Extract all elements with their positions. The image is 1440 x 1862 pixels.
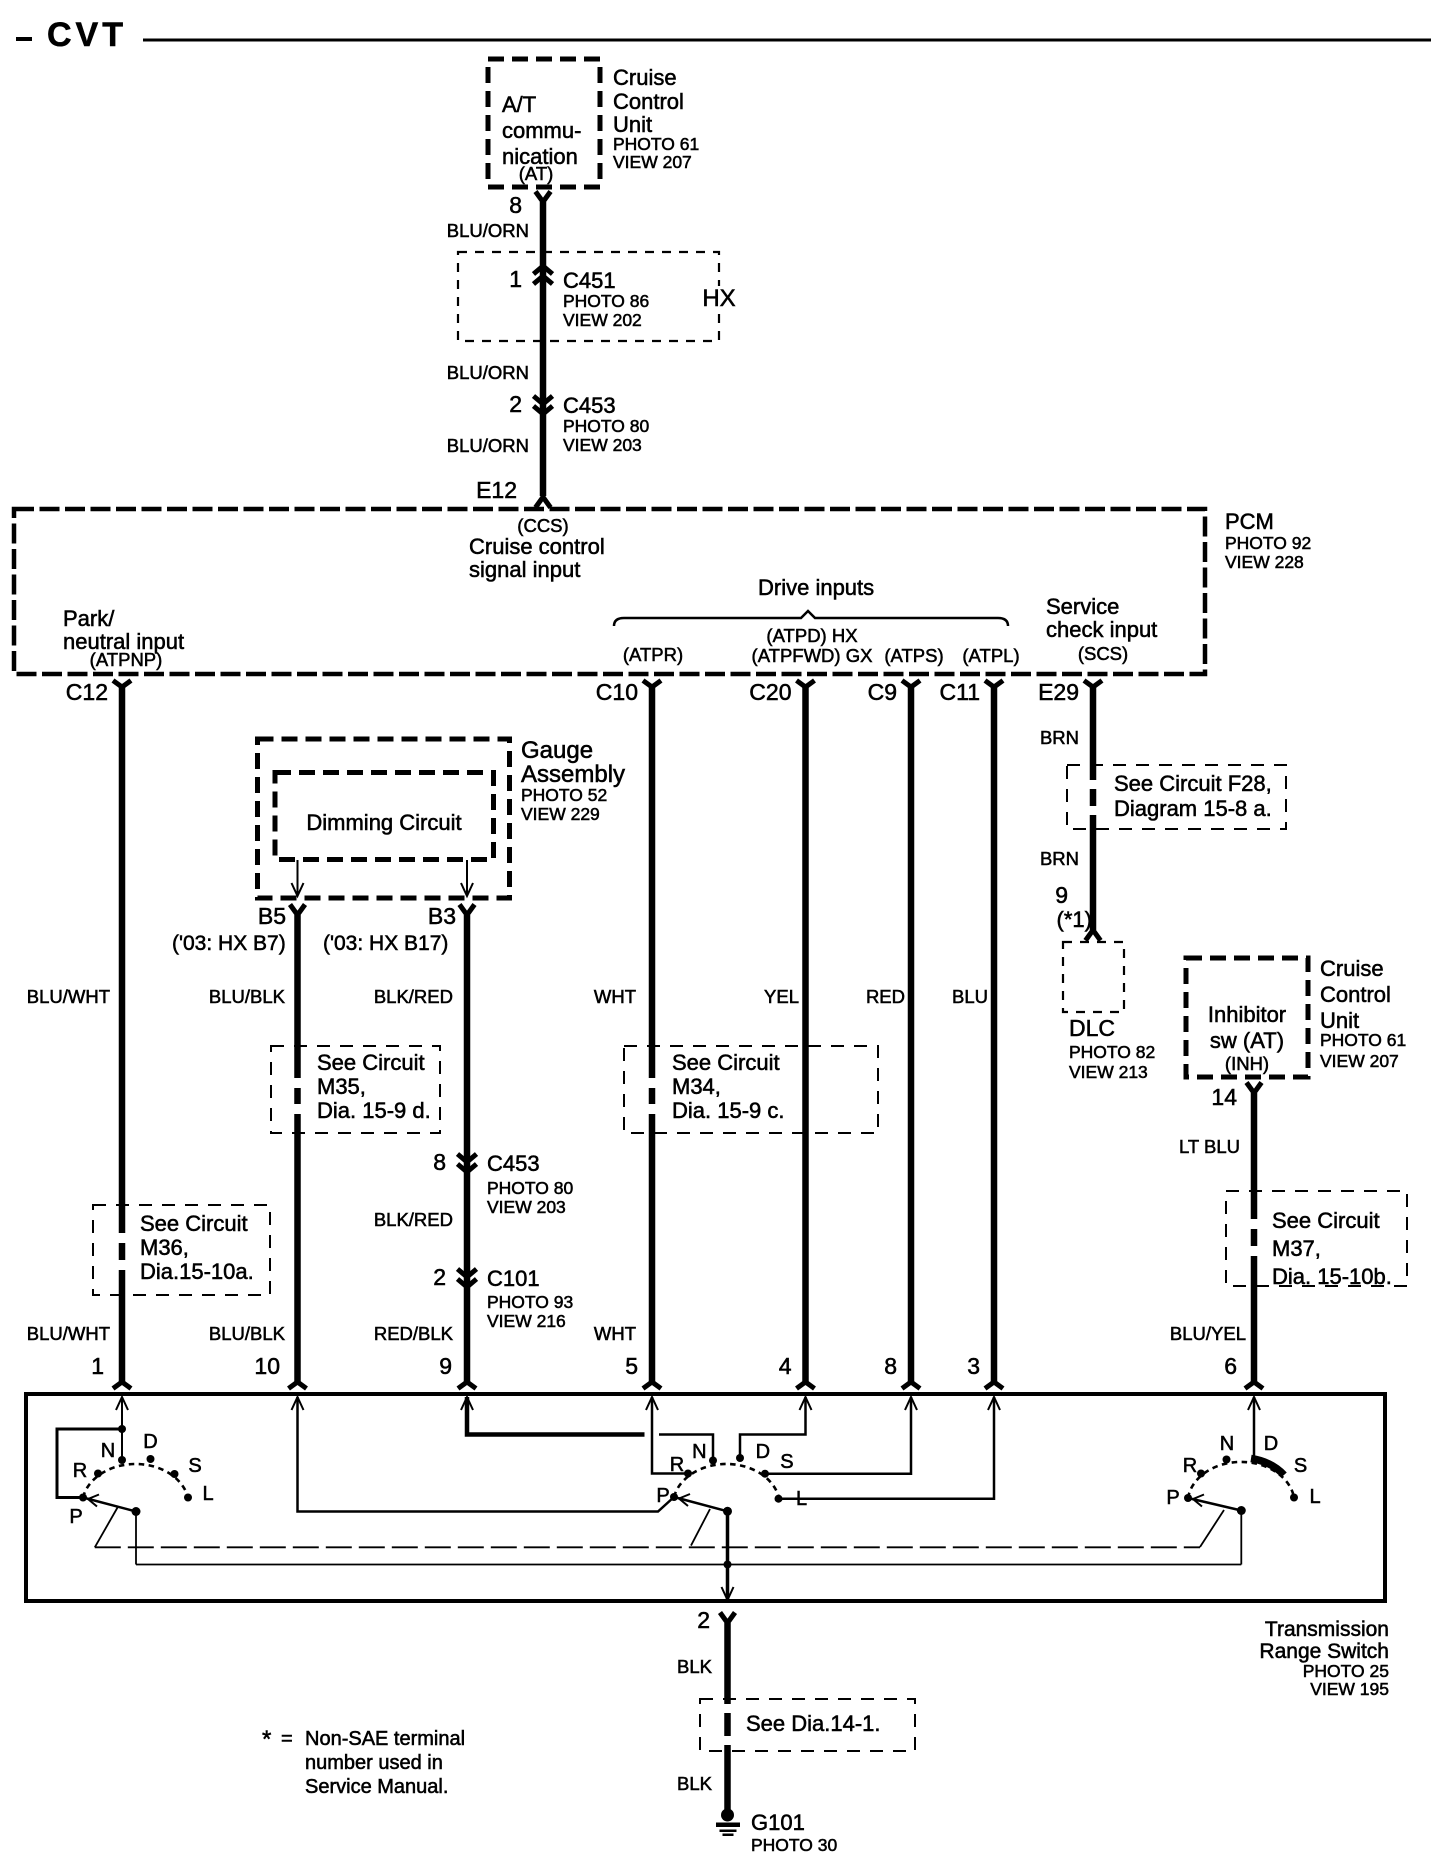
label C453 lower	[487, 1151, 574, 1217]
svg-text:BLK/RED: BLK/RED	[374, 1209, 453, 1230]
switch SW3 contact arc	[1188, 1462, 1294, 1498]
gauge assembly box	[258, 739, 510, 898]
svg-text:PCM: PCM	[1225, 509, 1274, 534]
svg-text:BLU/ORN: BLU/ORN	[447, 435, 529, 456]
pin 4 of range switch	[779, 1353, 815, 1389]
svg-text:PHOTO 25: PHOTO 25	[1303, 1661, 1389, 1681]
wire bracket pin 1 to P contact	[57, 1429, 122, 1498]
svg-text:WHT: WHT	[594, 986, 636, 1007]
svg-text:E29: E29	[1038, 679, 1079, 705]
svg-text:BLU/YEL: BLU/YEL	[1170, 1323, 1246, 1344]
ground G101	[716, 1809, 740, 1837]
linkage slant SW1	[95, 1507, 118, 1547]
inhibitor switch box	[1186, 958, 1308, 1077]
pin 1 of range switch	[91, 1353, 131, 1389]
svg-text:(ATPNP): (ATPNP)	[90, 649, 163, 670]
svg-text:Service: Service	[1046, 594, 1119, 619]
label BLK upper	[677, 1656, 713, 1677]
svg-text:Cruise control: Cruise control	[469, 534, 605, 559]
label ('03: HX B7)	[172, 932, 286, 955]
wire dimming circuit to B3	[461, 860, 473, 896]
wire pin 9 to N contact	[461, 1397, 713, 1461]
label C101	[487, 1266, 573, 1331]
svg-text:C11: C11	[940, 679, 981, 705]
svg-text:Park/: Park/	[63, 606, 115, 631]
svg-text:6: 6	[1224, 1353, 1237, 1379]
svg-text:Inhibitor: Inhibitor	[1208, 1002, 1286, 1027]
svg-text:See Dia.14-1.: See Dia.14-1.	[746, 1711, 881, 1736]
wire BLU/ORN from U1 pin 8 to PCM E12	[540, 202, 547, 496]
connector C101 pin 2	[433, 1264, 476, 1290]
svg-text:BLU/ORN: BLU/ORN	[447, 362, 529, 383]
svg-text:BLU/WHT: BLU/WHT	[27, 1323, 110, 1344]
pin 2 of range switch	[697, 1607, 735, 1633]
svg-text:C453: C453	[563, 393, 616, 418]
svg-text:Control: Control	[1320, 982, 1391, 1007]
PCM U2 box	[14, 509, 1205, 674]
label (ATPS)	[884, 645, 943, 666]
label BLU/WHT upper	[27, 986, 110, 1007]
switch SW2 contacts	[670, 1454, 783, 1503]
switch SW2 wiper	[674, 1494, 732, 1516]
switch SW3 position labels	[1166, 1433, 1320, 1509]
svg-text:8: 8	[884, 1353, 897, 1379]
svg-text:Transmission: Transmission	[1265, 1618, 1389, 1641]
svg-text:Dimming Circuit: Dimming Circuit	[306, 810, 461, 835]
svg-text:L: L	[202, 1483, 213, 1505]
svg-text:=: =	[281, 1728, 293, 1750]
svg-text:M35,: M35,	[317, 1074, 366, 1099]
pin 9 of range switch	[439, 1353, 476, 1389]
svg-text:(CCS): (CCS)	[517, 515, 568, 536]
wire YEL from PCM C20 to range switch pin 4	[802, 687, 809, 1382]
svg-text:PHOTO 86: PHOTO 86	[563, 291, 649, 311]
svg-text:Non-SAE terminal: Non-SAE terminal	[305, 1728, 465, 1750]
svg-text:L: L	[1309, 1486, 1320, 1508]
wire SW1 wiper to common	[135, 1512, 137, 1565]
label C451	[563, 268, 649, 330]
label BLU/ORN 3	[447, 435, 529, 456]
node DLC fork	[1086, 930, 1101, 941]
switch SW1 contacts	[79, 1455, 192, 1502]
see circuit M37 box	[1226, 1191, 1407, 1289]
note non-SAE terminal	[262, 1726, 465, 1798]
see dia 14-1 box	[700, 1699, 915, 1751]
node junction pin 1	[118, 1425, 126, 1433]
DLC box	[1063, 942, 1124, 1012]
svg-text:G101: G101	[751, 1810, 805, 1835]
node CVT title	[47, 16, 127, 54]
label (ATPD) HX / (ATPFWD) GX	[752, 625, 873, 666]
wire - title dash	[16, 37, 32, 41]
dimming circuit box	[275, 773, 494, 860]
svg-text:Diagram 15-8 a.: Diagram 15-8 a.	[1114, 796, 1272, 821]
label G101	[751, 1810, 838, 1855]
svg-text:A/T: A/T	[502, 92, 536, 117]
pin C11 of PCM	[940, 679, 1004, 705]
pin B5 of gauge assembly	[258, 903, 305, 929]
svg-text:VIEW 229: VIEW 229	[521, 804, 600, 824]
svg-text:C9: C9	[868, 679, 897, 705]
label BLU/ORN 2	[447, 362, 529, 383]
label WHT upper	[594, 986, 636, 1007]
label CCS cruise control signal input	[469, 515, 605, 582]
svg-text:P: P	[1166, 1487, 1179, 1509]
label BLU/BLK upper	[209, 986, 286, 1007]
svg-text:M34,: M34,	[672, 1074, 721, 1099]
svg-text:PHOTO 30: PHOTO 30	[751, 1835, 838, 1855]
switch SW1 wiper	[83, 1495, 141, 1517]
switch SW1 contact arc	[83, 1464, 188, 1498]
svg-text:BRN: BRN	[1040, 727, 1079, 748]
svg-text:8: 8	[433, 1149, 446, 1175]
svg-text:check input: check input	[1046, 617, 1157, 642]
wire pin 1 entry	[116, 1397, 128, 1429]
svg-text:8: 8	[509, 192, 522, 218]
switch SW3 contacts	[1184, 1456, 1298, 1503]
svg-text:Dia.15-10a.: Dia.15-10a.	[140, 1259, 254, 1284]
wire SW2 wiper to pin 2	[722, 1511, 734, 1600]
svg-text:PHOTO 52: PHOTO 52	[521, 785, 607, 805]
svg-text:C451: C451	[563, 268, 616, 293]
wire RED from PCM C9 to range switch pin 8	[908, 687, 915, 1382]
svg-text:BLU/BLK: BLU/BLK	[209, 986, 286, 1007]
label drive inputs	[758, 575, 874, 600]
svg-text:VIEW 203: VIEW 203	[563, 435, 642, 455]
svg-text:10: 10	[254, 1353, 280, 1379]
svg-text:PHOTO 80: PHOTO 80	[487, 1178, 574, 1198]
pin C10 of PCM	[596, 679, 661, 705]
svg-text:VIEW 195: VIEW 195	[1310, 1679, 1389, 1699]
pin 9 of DLC (*1)	[1055, 882, 1092, 932]
transmission range switch box	[26, 1394, 1385, 1601]
svg-text:VIEW 202: VIEW 202	[563, 310, 642, 330]
svg-text:BLU: BLU	[952, 986, 988, 1007]
svg-text:P: P	[656, 1485, 669, 1507]
wire BLU/BLK from gauge B5 to range switch pin 10	[294, 915, 302, 1382]
svg-text:N: N	[1220, 1433, 1234, 1455]
label BLU/ORN 1	[447, 220, 529, 241]
wire BLU from PCM C11 to range switch pin 3	[991, 687, 998, 1382]
svg-text:(ATPD) HX: (ATPD) HX	[766, 625, 857, 646]
svg-text:RED: RED	[866, 986, 905, 1007]
svg-text:BLK: BLK	[677, 1773, 713, 1794]
svg-text:Drive inputs: Drive inputs	[758, 575, 874, 600]
label gauge assembly	[521, 737, 625, 824]
svg-text:See Circuit: See Circuit	[1272, 1208, 1380, 1233]
svg-text:N: N	[101, 1440, 115, 1462]
svg-text:Control: Control	[613, 89, 684, 114]
see circuit F28 box	[1067, 765, 1286, 829]
svg-text:M37,: M37,	[1272, 1236, 1321, 1261]
svg-text:Service Manual.: Service Manual.	[305, 1776, 448, 1798]
label BLU	[952, 986, 988, 1007]
svg-text:Dia. 15-10b.: Dia. 15-10b.	[1272, 1264, 1392, 1289]
svg-text:5: 5	[625, 1353, 638, 1379]
label cruise control unit right	[1320, 956, 1406, 1071]
pin C20 of PCM	[749, 679, 814, 705]
switch SW2 position labels	[656, 1441, 807, 1510]
svg-text:1: 1	[91, 1353, 104, 1379]
svg-text:PHOTO 61: PHOTO 61	[613, 134, 699, 154]
svg-text:Dia. 15-9 d.: Dia. 15-9 d.	[317, 1098, 431, 1123]
svg-text:Cruise: Cruise	[613, 65, 677, 90]
svg-text:CVT: CVT	[47, 16, 127, 54]
label RED	[866, 986, 905, 1007]
svg-text:See Circuit: See Circuit	[140, 1211, 248, 1236]
svg-text:DLC: DLC	[1069, 1015, 1115, 1041]
svg-text:D: D	[143, 1431, 157, 1453]
svg-text:R: R	[1183, 1455, 1197, 1477]
wire BLK from range switch pin 2 to G101	[724, 1623, 732, 1812]
svg-text:Cruise: Cruise	[1320, 956, 1384, 981]
pin 14 of inhibitor switch	[1211, 1083, 1261, 1111]
svg-text:14: 14	[1211, 1084, 1237, 1110]
svg-text:C20: C20	[749, 679, 791, 705]
wire pin 5 to R contact	[646, 1397, 688, 1474]
svg-text:VIEW 207: VIEW 207	[1320, 1051, 1399, 1071]
wire common bus	[136, 1564, 1241, 1566]
label BLU/YEL	[1170, 1323, 1246, 1344]
label RED/BLK	[374, 1323, 454, 1344]
wire - title rule	[143, 39, 1431, 42]
svg-text:(ATPL): (ATPL)	[962, 645, 1019, 666]
svg-text:LT BLU: LT BLU	[1179, 1136, 1240, 1157]
label transmission range switch	[1259, 1618, 1389, 1699]
linkage slant SW3	[1200, 1510, 1224, 1547]
svg-text:C12: C12	[66, 679, 108, 705]
wire LT BLU from inhibitor sw to range switch pin 6	[1250, 1093, 1258, 1382]
svg-text:number used in: number used in	[305, 1752, 443, 1774]
label service check input SCS	[1046, 594, 1157, 664]
label cruise control unit U1	[613, 65, 699, 172]
svg-text:C453: C453	[487, 1151, 540, 1176]
svg-text:VIEW 213: VIEW 213	[1069, 1062, 1148, 1082]
svg-text:PHOTO 93: PHOTO 93	[487, 1292, 573, 1312]
svg-text:(INH): (INH)	[1225, 1053, 1269, 1074]
label park/neutral input ATPNP	[63, 606, 184, 670]
connector C451 box HX	[458, 252, 738, 341]
svg-text:D: D	[1264, 1433, 1278, 1455]
wire BRN from PCM E29 to DLC	[1089, 687, 1097, 930]
svg-text:('03: HX B7): ('03: HX B7)	[172, 932, 286, 955]
connector C453 pin 8	[433, 1149, 476, 1175]
svg-text:Dia. 15-9 c.: Dia. 15-9 c.	[672, 1098, 785, 1123]
pin 8 of range switch	[884, 1353, 920, 1389]
svg-text:(SCS): (SCS)	[1078, 643, 1128, 664]
svg-text:VIEW 228: VIEW 228	[1225, 552, 1304, 572]
svg-text:BRN: BRN	[1040, 848, 1079, 869]
wire BLU/WHT from PCM C12 to range switch pin 1	[118, 687, 126, 1382]
svg-text:BLU/WHT: BLU/WHT	[27, 986, 110, 1007]
label BRN upper	[1040, 727, 1079, 748]
svg-text:1: 1	[509, 266, 522, 292]
switch SW3 wiper	[1188, 1495, 1246, 1516]
connector C451 pin 1	[509, 266, 552, 292]
svg-text:commu-: commu-	[502, 118, 581, 143]
label BLU/WHT lower	[27, 1323, 110, 1344]
wire pin 3 to L contact	[779, 1397, 1001, 1499]
node E12 into PCM	[476, 477, 550, 508]
label C453	[563, 393, 650, 455]
pin 3 of range switch	[967, 1353, 1003, 1389]
svg-text:See Circuit: See Circuit	[672, 1050, 780, 1075]
label (ATPL)	[962, 645, 1019, 666]
svg-text:sw (AT): sw (AT)	[1210, 1028, 1284, 1053]
svg-text:B3: B3	[428, 903, 456, 929]
svg-text:(ATPR): (ATPR)	[623, 644, 683, 665]
wire pin 1 to N contact	[121, 1429, 123, 1460]
pin E29 of PCM	[1038, 679, 1102, 705]
label (ATPR)	[623, 644, 683, 665]
svg-text:('03: HX B17): ('03: HX B17)	[323, 932, 448, 955]
svg-text:S: S	[780, 1451, 793, 1473]
switch SW2 contact arc	[674, 1464, 779, 1498]
mechanical linkage dashed line	[95, 1546, 1200, 1548]
svg-text:C10: C10	[596, 679, 638, 705]
svg-text:2: 2	[697, 1607, 710, 1633]
label YEL	[764, 986, 799, 1007]
svg-text:Range Switch: Range Switch	[1259, 1640, 1389, 1663]
svg-text:HX: HX	[702, 285, 735, 312]
svg-text:(ATPFWD) GX: (ATPFWD) GX	[752, 645, 873, 666]
wire pin 6 to D contact	[1248, 1397, 1260, 1459]
svg-text:PHOTO 61: PHOTO 61	[1320, 1030, 1406, 1050]
wire dimming circuit to B5	[292, 860, 304, 896]
see circuit M34 box	[624, 1046, 878, 1133]
label BLK lower	[677, 1773, 713, 1794]
pin 6 of range switch	[1224, 1353, 1263, 1389]
svg-text:N: N	[692, 1441, 706, 1463]
svg-text:R: R	[73, 1460, 87, 1482]
cruise control unit U1 (A/T communication) box	[488, 59, 600, 187]
svg-text:VIEW 216: VIEW 216	[487, 1311, 566, 1331]
label BLU/BLK lower	[209, 1323, 286, 1344]
svg-text:*: *	[262, 1726, 271, 1753]
see circuit M35 box	[271, 1046, 440, 1133]
pin C12 of PCM	[66, 679, 131, 705]
see circuit M36 box	[93, 1205, 270, 1295]
label WHT lower	[594, 1323, 636, 1344]
label ('03: HX B17)	[323, 932, 448, 955]
svg-text:BLU/ORN: BLU/ORN	[447, 220, 529, 241]
svg-text:See Circuit: See Circuit	[317, 1050, 425, 1075]
svg-text:3: 3	[967, 1353, 980, 1379]
svg-text:YEL: YEL	[764, 986, 799, 1007]
label PCM	[1225, 509, 1311, 572]
linkage slant SW2	[691, 1509, 710, 1546]
svg-text:B5: B5	[258, 903, 286, 929]
svg-text:Assembly: Assembly	[521, 761, 625, 788]
node drive inputs brace	[614, 611, 1008, 626]
svg-text:M36,: M36,	[140, 1235, 189, 1260]
wire pin 8 to S contact	[765, 1397, 917, 1474]
svg-text:(AT): (AT)	[519, 163, 554, 184]
wire SW3 wiper to common	[1240, 1511, 1242, 1565]
label DLC	[1069, 1015, 1155, 1082]
svg-text:S: S	[1294, 1455, 1307, 1477]
svg-text:9: 9	[1055, 882, 1068, 908]
svg-text:4: 4	[779, 1353, 792, 1379]
connector C453 pin 2	[509, 391, 552, 417]
svg-text:signal input: signal input	[469, 557, 580, 582]
pin B3 of gauge assembly	[428, 903, 475, 929]
svg-text:Gauge: Gauge	[521, 737, 593, 764]
svg-text:2: 2	[509, 391, 522, 417]
wire pin 4 to D contact	[740, 1397, 812, 1458]
svg-text:RED/BLK: RED/BLK	[374, 1323, 454, 1344]
svg-text:C101: C101	[487, 1266, 540, 1291]
svg-text:BLK/RED: BLK/RED	[374, 986, 453, 1007]
svg-text:BLK: BLK	[677, 1656, 713, 1677]
svg-text:PHOTO 80: PHOTO 80	[563, 416, 650, 436]
svg-text:VIEW 203: VIEW 203	[487, 1197, 566, 1217]
pin C9 of PCM	[868, 679, 920, 705]
svg-text:See Circuit F28,: See Circuit F28,	[1114, 771, 1272, 796]
svg-text:PHOTO 92: PHOTO 92	[1225, 533, 1311, 553]
svg-text:WHT: WHT	[594, 1323, 636, 1344]
wire pin 10 to P contact	[292, 1397, 675, 1512]
svg-text:2: 2	[433, 1264, 446, 1290]
svg-text:BLU/BLK: BLU/BLK	[209, 1323, 286, 1344]
label BLK/RED upper	[374, 986, 453, 1007]
svg-text:(ATPS): (ATPS)	[884, 645, 943, 666]
pin 8 of U1	[509, 192, 550, 219]
pin 5 of range switch	[625, 1353, 661, 1389]
wire BLK/RED from gauge B3 to range switch pin 9	[464, 915, 471, 1382]
svg-text:(*1): (*1)	[1057, 907, 1092, 932]
label LT BLU	[1179, 1136, 1240, 1157]
svg-text:L: L	[796, 1488, 807, 1510]
svg-text:R: R	[670, 1454, 684, 1476]
switch SW3 D-S closed segment	[1251, 1459, 1284, 1476]
svg-text:S: S	[188, 1455, 201, 1477]
svg-text:VIEW 207: VIEW 207	[613, 152, 692, 172]
svg-text:D: D	[756, 1441, 770, 1463]
svg-text:E12: E12	[476, 477, 517, 503]
switch SW1 position labels	[69, 1431, 213, 1528]
svg-text:9: 9	[439, 1353, 452, 1379]
label BLK/RED mid	[374, 1209, 453, 1230]
label BRN lower	[1040, 848, 1079, 869]
svg-text:PHOTO 82: PHOTO 82	[1069, 1042, 1155, 1062]
svg-text:P: P	[69, 1506, 82, 1528]
wire WHT from PCM C10 to range switch pin 5	[648, 687, 656, 1382]
pin 10 of range switch	[254, 1353, 306, 1389]
node junction common	[724, 1561, 732, 1569]
